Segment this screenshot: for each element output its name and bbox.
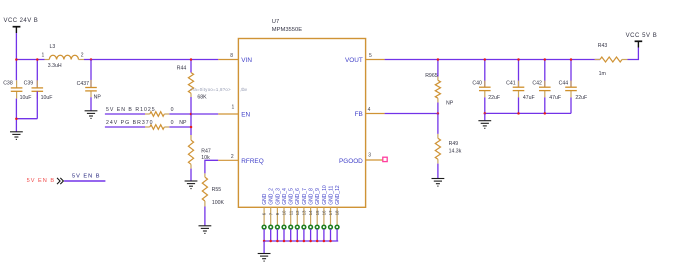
- pin 15 GND_9: [315, 188, 321, 241]
- resistor R55: [202, 173, 224, 206]
- svg-text:5V EN B: 5V EN B: [72, 174, 100, 180]
- svg-text:GND_6: GND_6: [295, 188, 301, 205]
- svg-text:2: 2: [231, 154, 234, 160]
- junction: [36, 58, 39, 61]
- svg-text:0: 0: [171, 120, 174, 126]
- svg-text:R44: R44: [177, 65, 187, 71]
- svg-text:C437: C437: [77, 81, 90, 87]
- C437 plates: [85, 88, 97, 91]
- svg-text:VIN: VIN: [241, 57, 252, 64]
- junction: [190, 126, 193, 129]
- svg-text:68K: 68K: [197, 94, 207, 100]
- pin 8 VIN: [218, 59, 238, 61]
- wire bottom joining C38 C39: [16, 118, 37, 120]
- svg-text:10: 10: [282, 210, 287, 215]
- wire to cap ground: [484, 113, 486, 120]
- ground C437: [85, 111, 98, 119]
- resistor R1025 net 5V_EN_B: [105, 107, 191, 116]
- svg-text:C39: C39: [24, 80, 34, 86]
- wire C437 down: [90, 97, 92, 110]
- op-amp/regulator U7 MPM3550E body: [238, 39, 365, 208]
- pin 14 GND_8: [308, 188, 314, 241]
- wire C38 down: [15, 99, 17, 132]
- capacitor C41: [506, 60, 535, 114]
- junction: [544, 112, 547, 115]
- svg-text:14: 14: [308, 210, 313, 215]
- pin 5 VOUT: [366, 59, 385, 61]
- pin 1 EN: [218, 113, 238, 115]
- power symbol VCC 5V B: [626, 33, 658, 48]
- wire rail to L3: [16, 59, 44, 61]
- wire bus to ground: [263, 241, 265, 253]
- pin 6 GND: [262, 193, 268, 241]
- junction: [269, 240, 272, 243]
- svg-text:NP: NP: [446, 100, 454, 106]
- junction: [283, 240, 286, 243]
- wire R49 to gnd: [437, 164, 439, 179]
- svg-text:C40: C40: [472, 80, 482, 86]
- svg-text:16: 16: [322, 210, 327, 215]
- svg-text:47uF: 47uF: [549, 95, 561, 101]
- svg-text:EN: EN: [241, 112, 250, 119]
- svg-text:11: 11: [288, 210, 293, 215]
- wire RFREQ: [205, 160, 218, 173]
- C39 plates: [32, 88, 44, 91]
- resistor R370 net 24V_PG_B: [105, 120, 191, 129]
- svg-text:GND_7: GND_7: [302, 188, 308, 205]
- pin 10 GND_4: [282, 188, 288, 241]
- svg-text:17: 17: [328, 210, 333, 215]
- capacitor C42: [532, 60, 561, 114]
- svg-text:RFREQ: RFREQ: [241, 158, 263, 165]
- ground caps: [478, 121, 491, 129]
- svg-text:NP: NP: [179, 120, 187, 126]
- svg-text:NP: NP: [94, 95, 102, 101]
- svg-text:13: 13: [302, 210, 307, 215]
- svg-text:VCC 24V B: VCC 24V B: [4, 18, 39, 24]
- svg-text:,tbv: ,tbv: [240, 87, 248, 92]
- svg-text:5V EN B: 5V EN B: [27, 178, 55, 184]
- capacitor C437: [77, 60, 102, 101]
- svg-text:GND_3: GND_3: [275, 188, 281, 205]
- svg-text:C38: C38: [3, 80, 13, 86]
- pin 2 RFREQ: [218, 159, 238, 161]
- ground bus: [258, 254, 271, 262]
- svg-text:22uF: 22uF: [575, 95, 587, 101]
- pin 13 GND_7: [302, 188, 308, 241]
- junction: [289, 240, 292, 243]
- ground R47: [185, 181, 198, 189]
- svg-text:10uF: 10uF: [41, 95, 53, 101]
- junction: [544, 58, 547, 61]
- wire R43 to 5V: [628, 48, 639, 60]
- junction: [309, 240, 312, 243]
- junction: [296, 240, 299, 243]
- svg-text:3: 3: [368, 153, 371, 159]
- wire R55 to gnd: [204, 207, 206, 226]
- svg-text:24V PG BR370: 24V PG BR370: [106, 120, 153, 126]
- svg-text:100K: 100K: [212, 200, 225, 206]
- junction: [15, 58, 18, 61]
- svg-text:0: 0: [171, 107, 174, 113]
- pin 18 GND_12: [335, 185, 341, 241]
- svg-text:PGOOD: PGOOD: [339, 158, 363, 165]
- svg-text:GND_5: GND_5: [289, 188, 295, 205]
- svg-text:3.3uH: 3.3uH: [48, 63, 62, 69]
- wire C39 down: [36, 91, 38, 118]
- pin 3 PGOOD: [366, 159, 383, 161]
- wire FB: [385, 113, 438, 115]
- pin 16 GND_10: [322, 185, 328, 241]
- junction: [263, 240, 266, 243]
- junction: [190, 113, 193, 116]
- wire cap bottom rail: [485, 112, 571, 114]
- svg-text:C42: C42: [532, 80, 542, 86]
- wire VOUT rail: [385, 59, 600, 61]
- junction: [484, 112, 487, 115]
- svg-text:18: 18: [335, 210, 340, 215]
- svg-text:12: 12: [295, 210, 300, 215]
- svg-text:8: 8: [230, 53, 233, 59]
- svg-text:GND_9: GND_9: [315, 188, 321, 205]
- capacitor C39: [24, 60, 53, 102]
- ground left: [10, 132, 23, 140]
- wire GND bus: [264, 240, 338, 242]
- inductor L3: [42, 44, 85, 69]
- svg-text:47uF: 47uF: [523, 95, 535, 101]
- junction: [517, 58, 520, 61]
- svg-text:1: 1: [42, 53, 45, 59]
- svg-text:GND_11: GND_11: [328, 185, 334, 204]
- capacitor C40: [472, 60, 500, 114]
- C44 plates: [565, 87, 577, 90]
- resistor R43: [595, 43, 628, 77]
- resistor R44: [177, 60, 207, 101]
- svg-text:4: 4: [368, 107, 371, 113]
- svg-text:14.3k: 14.3k: [449, 149, 462, 155]
- svg-text:R43: R43: [598, 43, 608, 49]
- C38 plates: [11, 88, 23, 91]
- svg-text:FB: FB: [355, 111, 363, 118]
- ground R55: [199, 226, 212, 234]
- svg-text:GND_10: GND_10: [322, 185, 328, 205]
- svg-text:R55: R55: [212, 187, 222, 193]
- junction: [276, 240, 279, 243]
- junction: [484, 58, 487, 61]
- svg-text:MPM3550E: MPM3550E: [272, 27, 302, 33]
- C41 plates: [513, 87, 525, 90]
- no-ERC marker PGOOD: [383, 157, 387, 161]
- junction: [517, 112, 520, 115]
- svg-text:GND_8: GND_8: [309, 188, 315, 205]
- svg-text:2: 2: [81, 53, 84, 59]
- svg-text:<ra=0ityoo=1,8?o>: <ra=0ityoo=1,8?o>: [190, 87, 231, 92]
- pin 9 GND_3: [275, 188, 281, 241]
- junction: [90, 58, 93, 61]
- svg-text:GND: GND: [262, 193, 268, 205]
- svg-text:5V EN B R1025: 5V EN B R1025: [106, 107, 156, 113]
- svg-text:10uF: 10uF: [20, 95, 32, 101]
- power symbol VCC 24V B: [4, 18, 39, 33]
- svg-text:C44: C44: [559, 80, 569, 86]
- resistor R49: [435, 114, 461, 164]
- resistor R47: [188, 135, 211, 169]
- wire R47 to gnd: [190, 169, 192, 181]
- svg-text:L3: L3: [50, 44, 56, 50]
- pin 17 GND_11: [328, 185, 334, 241]
- wire VCC24V vertical: [15, 33, 17, 80]
- pin 11 GND_5: [288, 188, 294, 241]
- junction: [437, 58, 440, 61]
- svg-text:GND_12: GND_12: [335, 185, 341, 205]
- capacitor C44: [559, 60, 588, 114]
- resistor R965: [425, 60, 454, 114]
- svg-text:1m: 1m: [599, 71, 606, 77]
- svg-text:5: 5: [369, 53, 372, 59]
- junction: [437, 112, 440, 115]
- capacitor C38: [3, 80, 31, 101]
- junction: [303, 240, 306, 243]
- pin 12 GND_6: [295, 188, 301, 241]
- junction: [316, 240, 319, 243]
- junction: [570, 58, 573, 61]
- off-page connector 5V EN B: [27, 174, 106, 185]
- junction: [190, 58, 193, 61]
- svg-text:VOUT: VOUT: [345, 57, 363, 64]
- C42 plates: [539, 87, 551, 90]
- svg-text:GND_4: GND_4: [282, 188, 288, 205]
- junction: [15, 117, 18, 120]
- wire L3 to VIN pin: [84, 59, 218, 61]
- svg-text:R49: R49: [449, 141, 459, 147]
- C40 plates: [479, 87, 491, 90]
- pin 4 FB: [366, 113, 385, 115]
- svg-text:VCC 5V B: VCC 5V B: [626, 33, 658, 39]
- junction: [323, 240, 326, 243]
- wire R44 to EN node: [190, 97, 192, 135]
- svg-text:22uF: 22uF: [488, 95, 500, 101]
- svg-text:GND_2: GND_2: [269, 188, 275, 205]
- pin 7 GND_2: [268, 188, 274, 241]
- svg-text:R47: R47: [201, 148, 211, 154]
- ground R49: [432, 179, 445, 187]
- svg-text:U7: U7: [272, 19, 279, 25]
- svg-text:1: 1: [232, 105, 235, 111]
- svg-text:15: 15: [315, 210, 320, 215]
- wire EN pin: [191, 113, 218, 115]
- svg-text:C41: C41: [506, 80, 516, 86]
- junction: [329, 240, 332, 243]
- svg-text:R965: R965: [425, 73, 438, 79]
